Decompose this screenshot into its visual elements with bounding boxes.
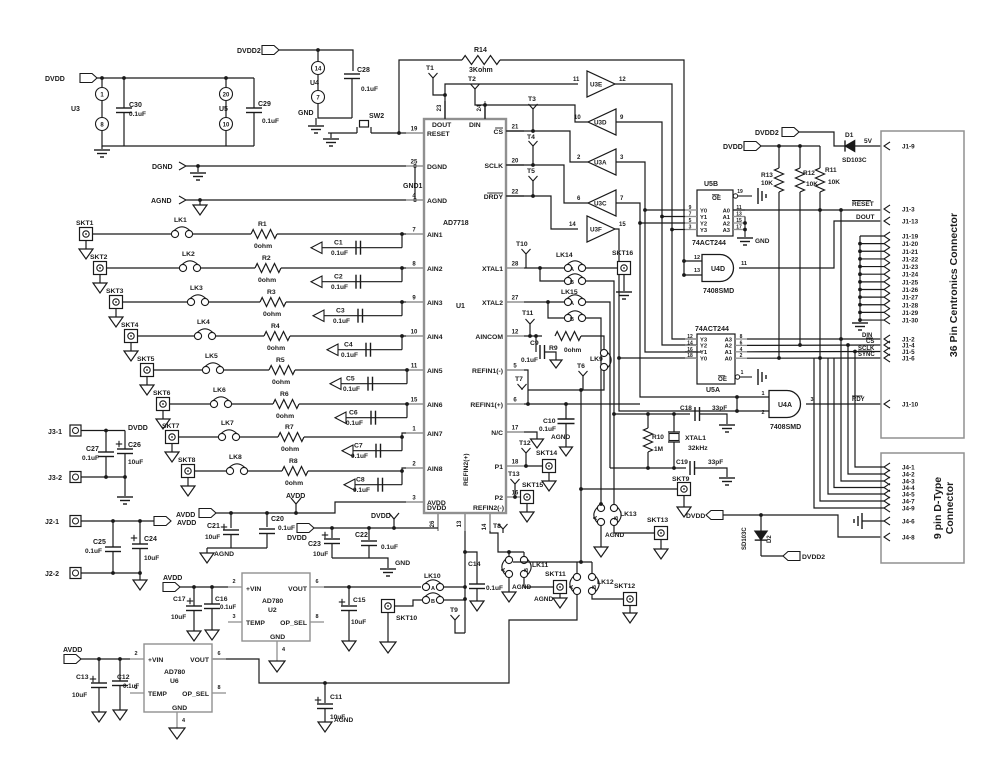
svg-text:18: 18 <box>687 353 693 359</box>
svg-text:1M: 1M <box>654 446 663 453</box>
svg-text:12: 12 <box>619 77 626 83</box>
svg-text:T12: T12 <box>519 440 531 447</box>
svg-text:10uF: 10uF <box>351 619 366 626</box>
svg-text:SD103C: SD103C <box>842 157 867 164</box>
svg-text:T3: T3 <box>528 96 536 103</box>
connector pin J1-9 <box>884 142 890 150</box>
svg-text:0.1uF: 0.1uF <box>278 525 295 532</box>
svg-text:0ohm: 0ohm <box>258 277 276 284</box>
svg-text:T13: T13 <box>508 471 520 478</box>
wire SCLK line U5A A1 to J1-5 <box>747 351 882 353</box>
capacitor C25 0.1uF <box>112 521 114 547</box>
svg-text:SKT2: SKT2 <box>90 254 108 261</box>
U5 pin 10 circle <box>220 118 233 131</box>
ground below SKT4 <box>130 343 132 352</box>
svg-text:J1-19: J1-19 <box>902 234 919 241</box>
wire R8 to U1 AIN8 <box>308 468 406 471</box>
svg-text:AGND: AGND <box>534 596 553 603</box>
AGND arrow below C21/C20 <box>207 547 267 549</box>
U5B A1-A3 tie to GND <box>744 217 746 238</box>
svg-text:A: A <box>570 267 574 273</box>
svg-text:33pF: 33pF <box>712 405 727 412</box>
wire U5B A0 RESET line to J1-3 <box>733 209 882 211</box>
svg-text:SKT4: SKT4 <box>121 322 139 329</box>
svg-text:0.1uF: 0.1uF <box>333 318 350 325</box>
capacitor C9 0.1uF <box>535 336 537 352</box>
wire DVDD2 to U4 pin14 and C28 <box>279 50 353 71</box>
svg-text:0ohm: 0ohm <box>564 347 582 354</box>
svg-text:U5B: U5B <box>704 181 718 188</box>
connector pin J4-7 <box>884 497 890 505</box>
connector pin J1-23 <box>884 263 890 271</box>
svg-text:C25: C25 <box>93 539 106 546</box>
svg-text:J2-2: J2-2 <box>45 571 59 578</box>
svg-text:Y1: Y1 <box>700 215 708 221</box>
svg-text:AVDD: AVDD <box>176 512 195 519</box>
wire XTAL bottom line <box>610 467 686 469</box>
svg-text:C7: C7 <box>354 443 363 450</box>
connector pin J1-20 <box>884 240 890 248</box>
svg-text:Y2: Y2 <box>700 344 707 350</box>
svg-text:P1: P1 <box>495 464 504 471</box>
op-amp/ADC U1 AD7718 body <box>424 119 506 513</box>
svg-text:AIN3: AIN3 <box>427 300 443 307</box>
svg-text:AGND: AGND <box>427 198 447 205</box>
svg-text:19: 19 <box>411 127 418 133</box>
svg-text:C17: C17 <box>173 596 186 603</box>
svg-text:AIN6: AIN6 <box>427 402 443 409</box>
tag AVDD at J2-1 <box>154 517 171 526</box>
capacitor C22 0.1uF <box>368 528 370 540</box>
wire U5B Y2 tap <box>640 222 685 224</box>
svg-text:A: A <box>569 585 575 589</box>
wire REFIN1(+) pin6 <box>524 403 640 405</box>
svg-text:J1-27: J1-27 <box>902 295 919 302</box>
svg-text:DGND: DGND <box>427 164 447 171</box>
wire DOUT pin23 to U3E input <box>445 84 578 119</box>
svg-text:14: 14 <box>315 67 322 73</box>
wire LK11 top to LK12 top rail <box>513 561 592 563</box>
capacitor C11 10uF on VOUT rail <box>323 681 327 685</box>
svg-text:U6: U6 <box>170 678 179 685</box>
svg-text:A3: A3 <box>725 337 733 343</box>
svg-text:R11: R11 <box>825 167 837 174</box>
IC U2 AD780 <box>242 573 310 641</box>
connector pin J4-8 <box>884 533 890 541</box>
svg-text:0.1uF: 0.1uF <box>343 386 360 393</box>
svg-text:33pF: 33pF <box>708 459 723 466</box>
svg-text:REFIN1(+): REFIN1(+) <box>470 402 503 409</box>
node AIN2 junction <box>400 266 404 270</box>
svg-text:C16: C16 <box>215 596 228 603</box>
svg-text:U5A: U5A <box>706 387 720 394</box>
svg-text:0.1uF: 0.1uF <box>361 86 378 93</box>
wire J4-9 to vertical bundle <box>814 358 884 508</box>
svg-text:GND1: GND1 <box>403 183 423 190</box>
svg-text:8: 8 <box>740 334 743 340</box>
wire SKT3 to LK3 <box>123 301 188 303</box>
svg-text:REFIN1(-): REFIN1(-) <box>472 368 503 375</box>
U1 left pin stubs <box>406 132 424 134</box>
svg-text:R4: R4 <box>271 323 280 330</box>
svg-text:AVDD: AVDD <box>286 493 305 500</box>
capacitor C27 0.1uF <box>104 429 108 433</box>
svg-text:2: 2 <box>232 579 235 585</box>
svg-text:A: A <box>593 516 599 520</box>
link LK10 B <box>422 596 429 603</box>
wire SKT4 to LK4 <box>138 335 195 337</box>
svg-text:C23: C23 <box>308 541 321 548</box>
svg-text:25: 25 <box>411 160 418 166</box>
capacitor C10 0.1uF with AGND <box>565 404 567 419</box>
U1 top pins DOUT DIN <box>444 101 446 119</box>
svg-text:N/C: N/C <box>491 430 503 437</box>
svg-text:DRDY: DRDY <box>484 194 504 201</box>
svg-text:74ACT244: 74ACT244 <box>695 326 729 333</box>
svg-text:13: 13 <box>457 520 463 527</box>
wire U5A Y1 from U3A vertical <box>645 210 701 352</box>
svg-text:10uF: 10uF <box>128 459 143 466</box>
svg-text:B: B <box>570 280 574 286</box>
wire P1 pin18 to SKT14 <box>524 465 542 467</box>
svg-text:AIN7: AIN7 <box>427 431 443 438</box>
wire XTAL1 pin28 to LK14 <box>524 267 564 269</box>
wire J4-1 to vertical bundle <box>855 352 884 467</box>
svg-text:1: 1 <box>741 370 744 376</box>
node RESET junction at chip pin 19 <box>397 131 401 135</box>
connector box 36 Pin Centronics <box>881 131 964 438</box>
svg-text:15: 15 <box>411 398 418 404</box>
connector pin J4-2 <box>884 470 890 478</box>
svg-text:C5: C5 <box>346 376 355 383</box>
wire J2-1 to AVDD tag <box>81 520 154 522</box>
svg-text:J1-20: J1-20 <box>902 241 919 248</box>
svg-text:U3D: U3D <box>594 120 607 127</box>
svg-text:DGND: DGND <box>152 164 173 171</box>
svg-text:U3F: U3F <box>590 227 602 234</box>
wire LK4 to R4 <box>216 335 264 337</box>
svg-text:OP_SEL: OP_SEL <box>182 691 209 698</box>
svg-text:0.1uF: 0.1uF <box>539 426 556 433</box>
svg-text:12: 12 <box>512 330 519 336</box>
svg-text:C26: C26 <box>128 442 141 449</box>
wire REFIN1 tie to REFIN1(+) <box>527 390 529 404</box>
link LK15 row B <box>564 314 571 321</box>
connector pin J4-5 <box>884 490 890 498</box>
svg-text:C1: C1 <box>334 240 343 247</box>
svg-text:J1-24: J1-24 <box>902 272 919 279</box>
wire J4-2 to vertical bundle <box>848 345 884 474</box>
power tag DVDD2 at D2 <box>761 555 783 557</box>
wire DVDD tag to D2 node and J4-8 <box>723 515 882 537</box>
svg-text:2: 2 <box>134 651 137 657</box>
wire RESET vertical to J4 area <box>819 210 821 358</box>
svg-text:10uF: 10uF <box>313 551 328 558</box>
svg-text:J4-2: J4-2 <box>902 472 915 479</box>
svg-text:A1: A1 <box>723 215 731 221</box>
wire SKT1 to LK1 <box>93 233 172 235</box>
svg-text:SKT16: SKT16 <box>612 250 633 257</box>
node AIN4 junction <box>400 334 404 338</box>
ground below SKT9 (triangle) <box>683 496 685 508</box>
svg-text:28: 28 <box>512 262 519 268</box>
svg-text:RESET: RESET <box>852 201 874 208</box>
connector pin J4-1 <box>884 463 890 471</box>
svg-text:DVDD: DVDD <box>427 505 446 512</box>
node AIN5 junction <box>405 368 409 372</box>
wire J4-3 to vertical bundle <box>841 339 884 481</box>
svg-text:SKT12: SKT12 <box>614 583 635 590</box>
svg-text:0.1uF: 0.1uF <box>82 455 99 462</box>
svg-text:R1: R1 <box>258 221 267 228</box>
svg-text:8: 8 <box>315 614 318 620</box>
svg-text:23: 23 <box>437 104 443 111</box>
svg-text:20: 20 <box>512 159 519 165</box>
connector pin J1-2 <box>884 335 890 343</box>
svg-text:C28: C28 <box>357 67 370 74</box>
svg-text:A0: A0 <box>723 208 730 214</box>
svg-text:J1-28: J1-28 <box>902 302 919 309</box>
svg-text:R3: R3 <box>267 289 276 296</box>
svg-text:+VIN: +VIN <box>148 657 163 664</box>
node AIN6 junction <box>405 402 409 406</box>
svg-text:XTAL1: XTAL1 <box>482 266 503 273</box>
svg-text:0.1uF: 0.1uF <box>486 585 503 592</box>
wire J3-2 rail <box>81 476 125 478</box>
svg-text:AGND: AGND <box>214 551 234 558</box>
svg-text:0.1uF: 0.1uF <box>220 604 236 611</box>
svg-text:U4A: U4A <box>778 402 792 409</box>
svg-text:8: 8 <box>217 685 220 691</box>
AGND below C12 <box>113 710 127 720</box>
svg-text:7408SMD: 7408SMD <box>770 424 801 431</box>
wire DIN pin24 from U3D output <box>485 105 588 122</box>
ground below SKT16 <box>623 275 625 292</box>
svg-text:LK14: LK14 <box>556 252 573 259</box>
svg-text:R9: R9 <box>549 345 558 352</box>
svg-text:10: 10 <box>574 115 581 121</box>
svg-text:C15: C15 <box>353 597 366 604</box>
wire LK14 A to SKT16 <box>586 267 617 269</box>
wire J2-2 rail <box>81 572 140 574</box>
svg-text:0.1uF: 0.1uF <box>123 683 139 690</box>
wire J3-1 to DVDD <box>81 430 125 432</box>
connector pin J4-6 with ground <box>884 517 890 525</box>
svg-text:17: 17 <box>736 225 742 231</box>
ground below U4 <box>315 118 317 125</box>
AGND below C17 <box>187 631 201 641</box>
wire LK5 to R5 <box>224 369 269 371</box>
svg-text:GND: GND <box>395 560 410 567</box>
AGND below LK11 A <box>508 578 510 592</box>
svg-text:C12: C12 <box>117 674 130 681</box>
svg-text:2: 2 <box>761 410 764 416</box>
svg-text:T9: T9 <box>450 607 458 614</box>
svg-text:R7: R7 <box>285 424 294 431</box>
svg-text:U2: U2 <box>268 607 277 614</box>
IC U6 AD780 <box>144 644 212 712</box>
svg-text:REFIN2(-): REFIN2(-) <box>473 505 504 512</box>
svg-text:A: A <box>570 301 574 307</box>
ground below U3 <box>101 146 103 149</box>
svg-text:LK7: LK7 <box>221 420 234 427</box>
svg-text:AD780: AD780 <box>262 598 283 605</box>
connector pin J1-28 <box>884 301 890 309</box>
wire R9 to LK9 <box>581 336 604 350</box>
ground at C18 <box>719 424 735 426</box>
svg-text:17: 17 <box>512 426 519 432</box>
svg-text:T8: T8 <box>493 523 501 530</box>
AGND below C16 <box>205 630 219 640</box>
ground below U6 GND pin (triangle) <box>169 728 185 739</box>
connector pin J1-22 <box>884 255 890 263</box>
svg-text:C21: C21 <box>207 523 220 530</box>
svg-text:T7: T7 <box>515 376 523 383</box>
ground below SKT2 <box>99 275 101 284</box>
svg-text:B: B <box>431 599 435 605</box>
svg-text:DVDD2: DVDD2 <box>755 130 779 137</box>
svg-text:Y0: Y0 <box>700 357 707 363</box>
capacitor C6 0.1uF with AGND arrow <box>406 404 408 418</box>
AGND arrow below C14 <box>470 601 484 611</box>
wire U4A input tie <box>736 397 738 411</box>
connector pin J1-27 <box>884 293 890 301</box>
capacitor C2 0.1uF with AGND arrow <box>401 268 403 282</box>
svg-text:J1-22: J1-22 <box>902 256 919 263</box>
svg-text:0.1uF: 0.1uF <box>521 357 538 364</box>
wire AVDD to U2 +VIN <box>180 586 228 588</box>
wire SKT6 to LK6 <box>170 403 211 405</box>
svg-text:SKT13: SKT13 <box>647 517 668 524</box>
svg-text:SKT3: SKT3 <box>106 288 124 295</box>
node AIN7 junction <box>400 435 404 439</box>
ground below SKT1 <box>85 241 87 250</box>
svg-text:J1-9: J1-9 <box>902 144 915 151</box>
svg-text:SKT8: SKT8 <box>178 457 196 464</box>
svg-text:U1: U1 <box>456 303 465 310</box>
ground below SKT13 (triangle) <box>660 540 662 550</box>
wire REFIN2(-) pin14 net with T8 <box>490 531 524 552</box>
wire R12 bottom to CS line <box>799 192 801 345</box>
svg-text:DVDD: DVDD <box>287 535 307 542</box>
link LK15 row A <box>564 298 571 305</box>
svg-text:B: B <box>592 585 598 589</box>
ground below U2 GND pin (triangle) <box>269 661 285 672</box>
connector pin J1-30 <box>884 316 890 324</box>
svg-text:T1: T1 <box>426 65 434 72</box>
svg-text:LK2: LK2 <box>182 251 195 258</box>
socket SKT10 <box>382 600 395 613</box>
svg-text:OE: OE <box>718 376 727 383</box>
gate U4D 7408SMD <box>702 255 734 282</box>
svg-text:20: 20 <box>223 93 230 99</box>
svg-text:SW2: SW2 <box>369 113 384 120</box>
svg-text:C10: C10 <box>543 418 556 425</box>
svg-text:AIN2: AIN2 <box>427 266 443 273</box>
svg-text:DVDD: DVDD <box>371 513 391 520</box>
wire REFIN2(+) pin13 net vertical <box>464 531 466 633</box>
svg-text:U3E: U3E <box>590 82 602 89</box>
svg-text:DOUT: DOUT <box>856 214 874 221</box>
svg-text:SKT7: SKT7 <box>162 423 180 430</box>
AGND below C15 <box>342 641 356 651</box>
svg-text:C2: C2 <box>334 274 343 281</box>
svg-text:AIN8: AIN8 <box>427 466 443 473</box>
svg-text:AINCOM: AINCOM <box>475 334 503 341</box>
svg-text:Connector: Connector <box>944 482 956 535</box>
connector box 9 pin D-Type <box>881 453 964 563</box>
ground below SKT6 <box>162 411 164 420</box>
wire SYNC line U5A A0 to J1-6 <box>747 357 882 359</box>
svg-text:9: 9 <box>689 205 692 211</box>
svg-text:T2: T2 <box>468 76 476 83</box>
svg-text:R5: R5 <box>276 357 285 364</box>
svg-text:J1-10: J1-10 <box>902 402 919 409</box>
svg-text:SCLK: SCLK <box>484 163 503 170</box>
svg-text:11: 11 <box>741 261 747 267</box>
node AIN3 junction <box>400 300 404 304</box>
svg-text:0.1uF: 0.1uF <box>341 352 358 359</box>
svg-text:C18: C18 <box>680 405 692 412</box>
svg-text:AVDD: AVDD <box>163 575 182 582</box>
svg-text:7: 7 <box>689 212 692 218</box>
wire LK7 to R7 <box>240 436 278 438</box>
wire R3 to U1 AIN3 <box>286 301 406 303</box>
connector pin J1-29 <box>884 308 890 316</box>
connector pin J1-6 <box>884 354 890 362</box>
svg-text:11: 11 <box>411 364 418 370</box>
wire REFIN1(-) pin5 <box>524 370 528 390</box>
wire U5A Y0 tap <box>619 357 701 359</box>
svg-text:AGND: AGND <box>334 717 353 724</box>
svg-text:AVDD: AVDD <box>63 647 82 654</box>
svg-text:DIN: DIN <box>469 122 481 129</box>
capacitor C21 10uF <box>229 511 233 515</box>
wire SKT7 to LK7 <box>179 436 219 438</box>
diode D2 SD103C <box>760 515 762 531</box>
wire LK15 A right to C19 line <box>586 302 610 468</box>
link LK11 B (vertical) <box>520 556 527 563</box>
svg-text:C3: C3 <box>336 308 345 315</box>
wire J4-7 to vertical bundle <box>820 358 884 501</box>
svg-text:Y3: Y3 <box>700 337 708 343</box>
svg-text:AGND: AGND <box>151 198 172 205</box>
connector pin J1-3 <box>884 205 890 213</box>
svg-text:B: B <box>524 568 530 572</box>
svg-text:LK3: LK3 <box>190 285 203 292</box>
link LK14 row B <box>564 277 571 284</box>
svg-text:J3-2: J3-2 <box>48 475 62 482</box>
svg-text:27: 27 <box>512 296 519 302</box>
svg-text:Y2: Y2 <box>700 221 707 227</box>
wire LK11 B to SKT11 <box>524 578 553 587</box>
wire LK14 B to XTAL circuit (C18 line) <box>586 281 614 508</box>
svg-text:XTAL1: XTAL1 <box>685 435 706 442</box>
svg-text:Y0: Y0 <box>700 208 707 214</box>
GND below C22/C23 <box>332 558 388 568</box>
ground below SKT5 <box>146 377 148 386</box>
svg-text:19: 19 <box>737 189 743 195</box>
svg-text:DVDD: DVDD <box>128 425 148 432</box>
svg-text:13: 13 <box>736 212 742 218</box>
wire DVDD rail to U1 pin 26 <box>314 527 438 529</box>
svg-text:LK10: LK10 <box>424 573 441 580</box>
svg-text:10uF: 10uF <box>72 692 87 699</box>
wire SKT5 to LK5 <box>154 369 203 371</box>
wire AVDD to U6 +VIN <box>81 658 130 660</box>
svg-text:2: 2 <box>740 353 743 359</box>
svg-text:OE: OE <box>712 195 721 202</box>
